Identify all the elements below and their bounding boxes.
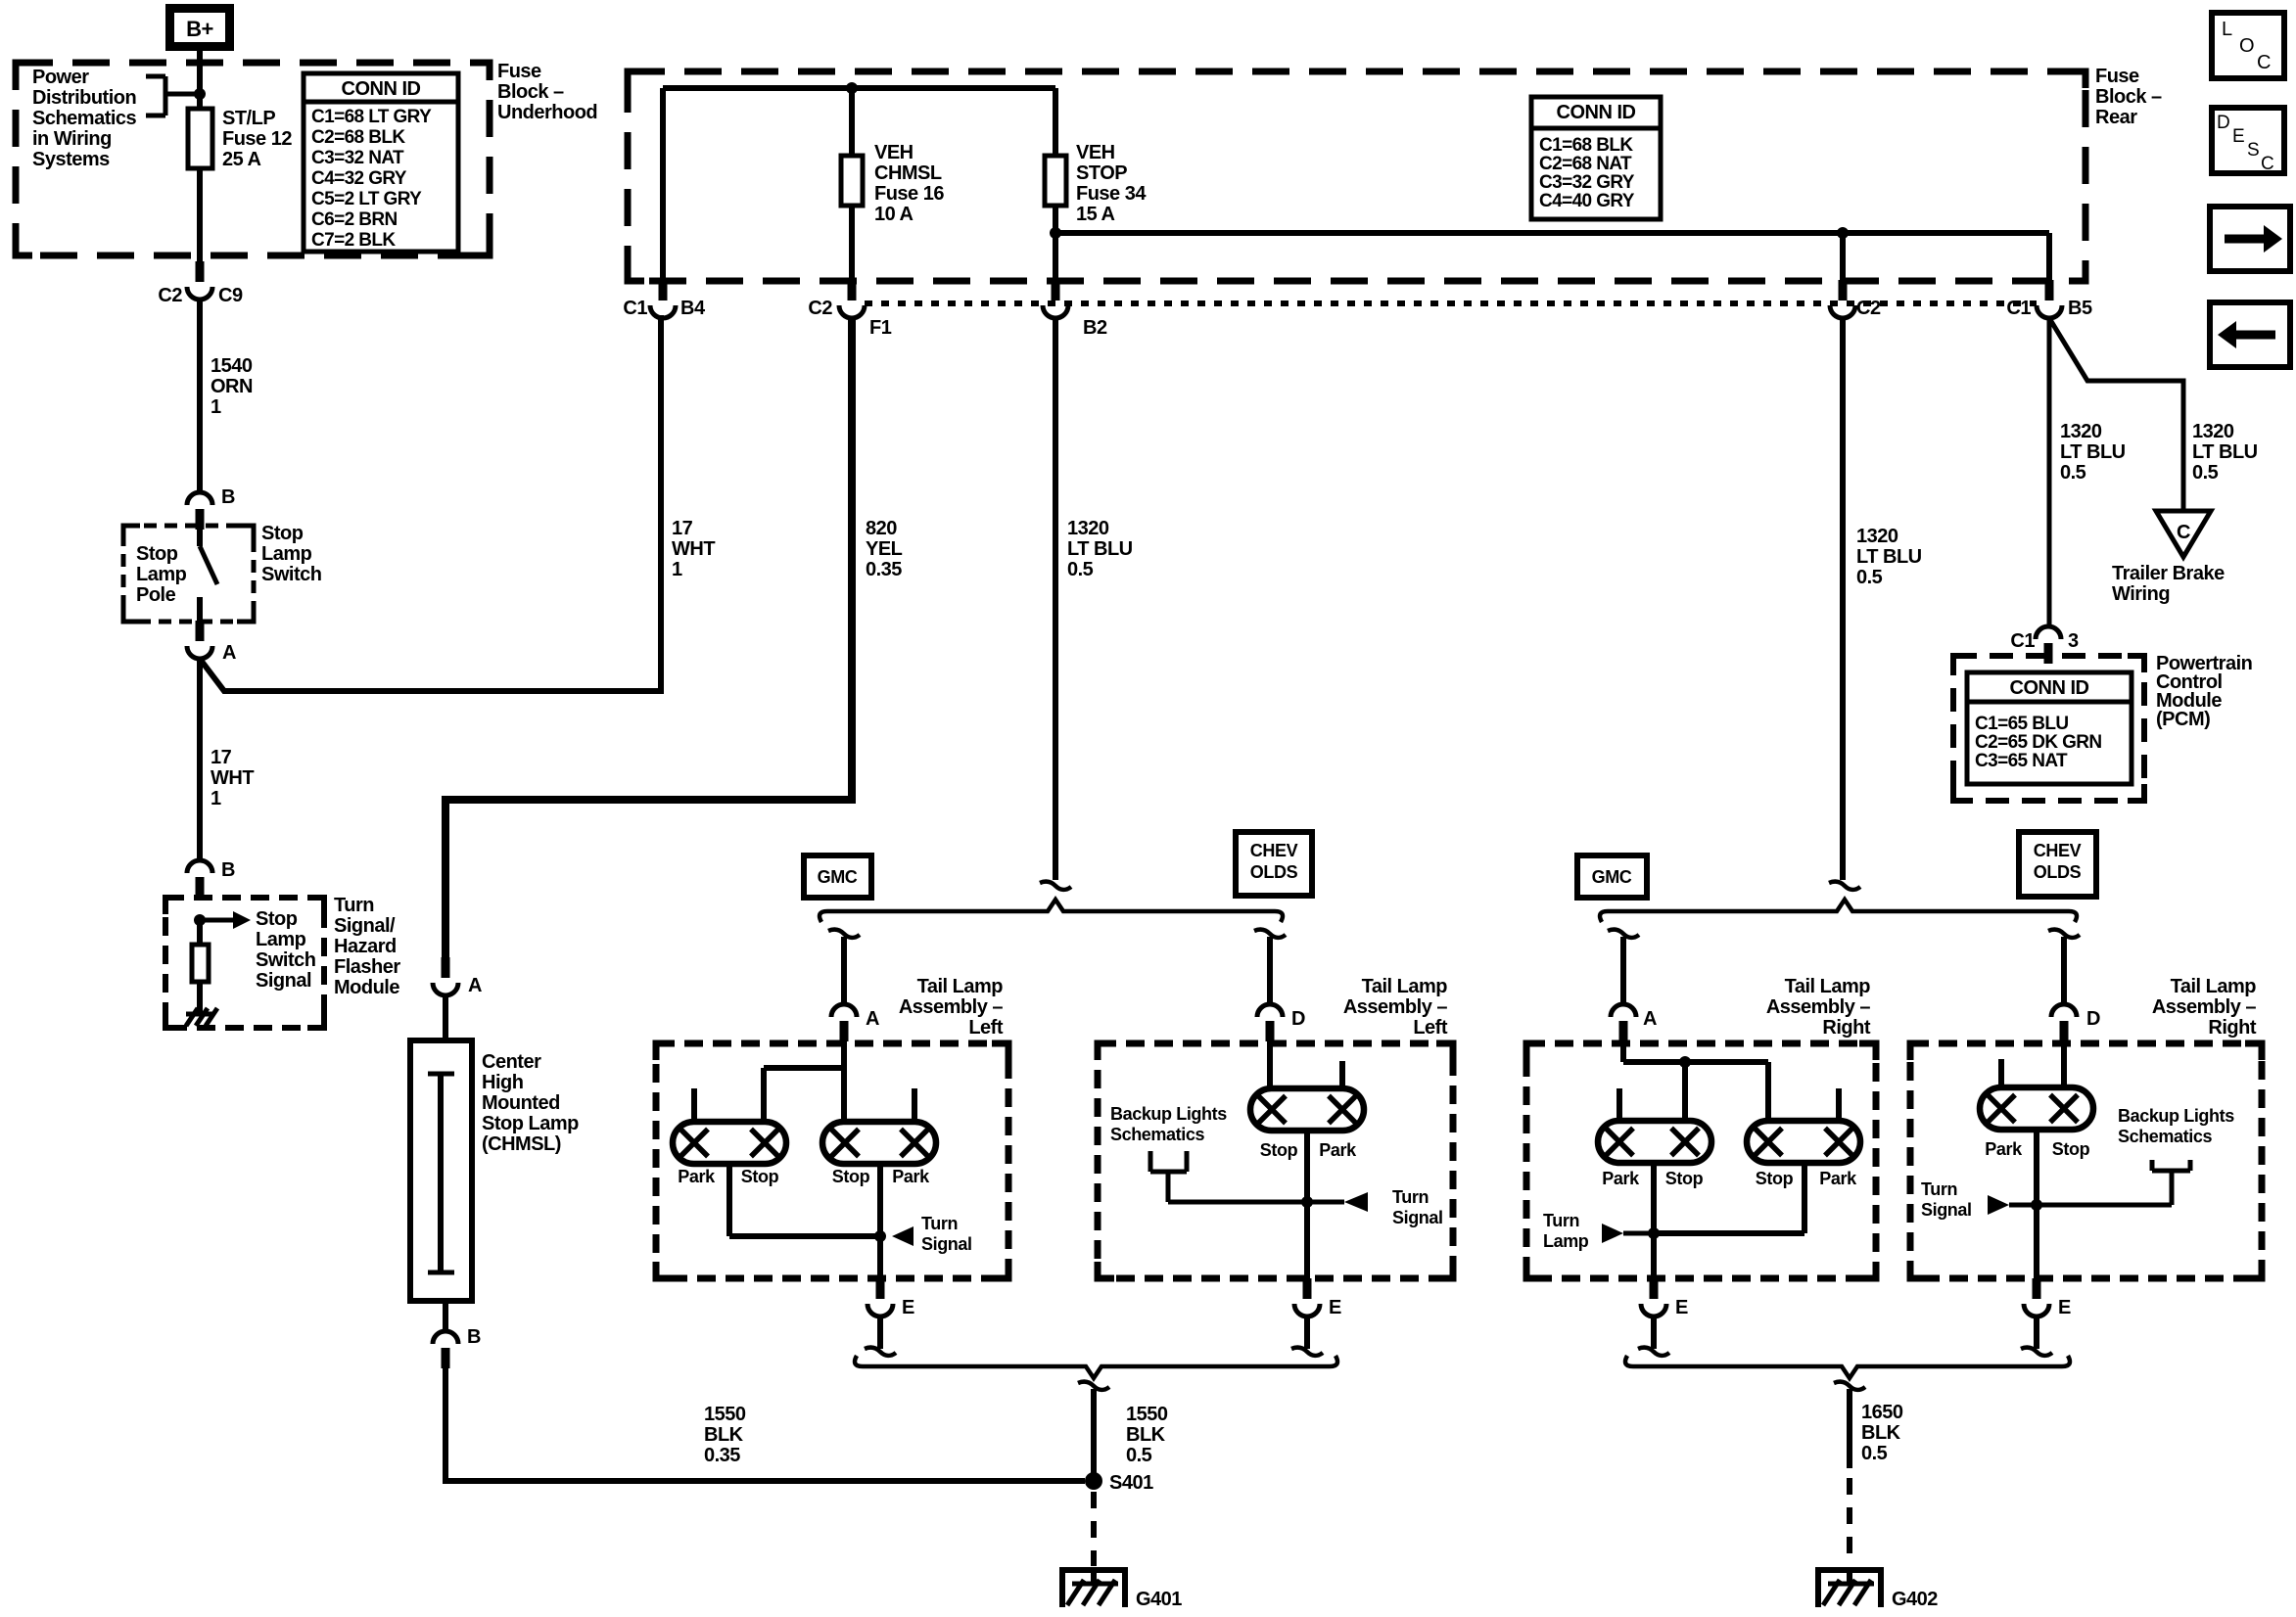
label 1320 LT BLU 0.5 rear C2 <box>1856 526 1922 588</box>
label Turn Signal Hazard Flasher Module <box>334 895 400 998</box>
svg-text:Lamp: Lamp <box>256 929 306 950</box>
label 1650 BLK 0.5 <box>1861 1402 1903 1464</box>
wire switch A to fuse B4 <box>200 315 661 691</box>
resistor flasher module <box>192 920 209 1013</box>
wire end curl E left CHEV <box>1291 1348 1323 1356</box>
bus wire fuse34 to B5 <box>1055 230 2049 236</box>
svg-text:1: 1 <box>672 559 682 580</box>
wire A into bulbs right GMC <box>1623 1039 1768 1121</box>
battery feed B+ box <box>170 9 230 47</box>
CHEV OLDS box left <box>1236 832 1312 896</box>
svg-text:Center: Center <box>482 1051 541 1073</box>
label Tail Lamp Assembly Left GMC <box>899 976 1004 1039</box>
park filament stub bulb2 left GMC <box>912 1088 917 1122</box>
svg-text:C: C <box>2177 522 2190 543</box>
dashed wire to G402 <box>1847 1478 1852 1564</box>
svg-text:Signal/: Signal/ <box>334 915 396 937</box>
svg-text:C5=2 LT GRY: C5=2 LT GRY <box>311 189 422 209</box>
svg-text:Fuse 12: Fuse 12 <box>222 128 292 150</box>
svg-text:E: E <box>1675 1297 1688 1318</box>
svg-text:C2=68 NAT: C2=68 NAT <box>1539 154 1632 174</box>
backup lights bracket left <box>1150 1151 1307 1202</box>
park filament stub bulb2 right GMC <box>1836 1088 1842 1121</box>
svg-text:Fuse 34: Fuse 34 <box>1076 183 1147 205</box>
wire B+ to ST/LP fuse <box>197 51 203 111</box>
svg-text:C3=32 NAT: C3=32 NAT <box>311 148 404 168</box>
ground G402 <box>1815 1570 1938 1610</box>
center high mounted stop lamp CHMSL body <box>410 1040 472 1301</box>
wire switch A to flasher module <box>197 659 203 860</box>
svg-text:WHT: WHT <box>672 538 715 560</box>
svg-text:F1: F1 <box>869 317 892 339</box>
label VEH CHMSL Fuse 16 10 A <box>874 142 944 225</box>
svg-text:1550: 1550 <box>704 1404 746 1425</box>
svg-text:OLDS: OLDS <box>1250 862 1298 882</box>
svg-text:Park: Park <box>892 1167 930 1186</box>
svg-text:Right: Right <box>1822 1017 1870 1039</box>
svg-text:0.5: 0.5 <box>2060 462 2086 484</box>
brace ground left pair <box>855 1356 1337 1378</box>
wire 1320 LT BLU from B2 <box>1053 318 1058 880</box>
junction dot turn signal left CHEV <box>1301 1196 1313 1208</box>
junction dot bus fuse16 <box>846 82 858 94</box>
arrow box left <box>2210 302 2290 367</box>
wire to tail lamp right GMC A <box>1620 937 1626 1004</box>
svg-text:Power: Power <box>32 67 89 88</box>
svg-text:1320: 1320 <box>1067 518 1109 539</box>
connector E left GMC <box>867 1278 914 1318</box>
label Turn Signal left GMC <box>921 1214 972 1254</box>
connector E left CHEV <box>1294 1278 1341 1318</box>
label Backup Lights Schematics left <box>1110 1104 1227 1144</box>
connector B2 <box>1043 280 1107 339</box>
label Stop Lamp Switch Signal <box>256 908 315 992</box>
label 1550 BLK 0.35 <box>704 1404 746 1466</box>
svg-text:Rear: Rear <box>2095 107 2137 128</box>
connector A tail lamp right GMC <box>1611 1004 1657 1041</box>
branch curl CHEV left <box>1254 930 1286 938</box>
label Tail Lamp Assembly Left CHEV <box>1343 976 1448 1039</box>
svg-text:Lamp: Lamp <box>136 564 187 585</box>
connector C1/B4 <box>623 280 706 319</box>
svg-text:Park: Park <box>1819 1169 1857 1188</box>
connector D tail lamp right CHEV <box>2051 1004 2100 1041</box>
svg-text:Left: Left <box>968 1017 1004 1039</box>
svg-text:LT BLU: LT BLU <box>2060 441 2126 463</box>
label 17 WHT 1 left <box>211 747 254 809</box>
svg-text:C1: C1 <box>2010 630 2035 652</box>
svg-text:C: C <box>2257 52 2271 73</box>
bulb stop/park 2 left GMC <box>822 1122 936 1164</box>
svg-text:1320: 1320 <box>1856 526 1898 547</box>
label Stop Lamp Pole <box>136 543 187 606</box>
wire A into bulbs left GMC <box>764 1039 844 1122</box>
wire end curl E right CHEV <box>2021 1348 2052 1356</box>
svg-text:A: A <box>866 1008 879 1030</box>
tail lamp assembly left GMC dashed box <box>653 1040 1012 1282</box>
connector E right CHEV <box>2024 1278 2071 1318</box>
svg-text:Turn: Turn <box>921 1214 958 1233</box>
wire bulbs to E right GMC <box>1654 1163 1804 1278</box>
connector E right GMC <box>1641 1278 1688 1318</box>
svg-text:D: D <box>2086 1008 2100 1030</box>
svg-text:Turn: Turn <box>1543 1211 1579 1230</box>
fuse block rear dashed box <box>625 69 2089 285</box>
label ST/LP Fuse 12 25 A <box>222 108 292 170</box>
svg-text:Schematics: Schematics <box>32 108 137 129</box>
svg-text:C2: C2 <box>158 285 182 306</box>
label Center High Mounted Stop Lamp CHMSL <box>482 1051 579 1155</box>
label 1540 ORN 1 <box>211 355 253 418</box>
wire to S401 <box>1091 1389 1097 1474</box>
bulb park/stop right CHEV <box>1980 1087 2093 1130</box>
svg-text:E: E <box>2232 126 2245 147</box>
svg-text:E: E <box>2058 1297 2071 1318</box>
bus wire inside rear fuse block <box>663 88 1055 281</box>
svg-text:Stop: Stop <box>136 543 178 565</box>
svg-text:0.5: 0.5 <box>1856 567 1883 588</box>
svg-text:B+: B+ <box>186 17 213 41</box>
brace splice left pair <box>820 900 1283 922</box>
wire B5 to trailer brake <box>2049 318 2183 511</box>
wire end curl E right GMC <box>1638 1348 1669 1356</box>
wire end curl above right brace <box>1829 882 1860 890</box>
svg-text:B5: B5 <box>2068 298 2092 319</box>
label Stop bulb2 left GMC <box>832 1167 870 1186</box>
svg-text:Lamp: Lamp <box>261 543 312 565</box>
turn signal arrow left CHEV <box>1307 1192 1368 1212</box>
svg-text:0.5: 0.5 <box>1067 559 1094 580</box>
tail lamp assembly right CHEV dashed box <box>1907 1040 2266 1282</box>
label Stop bulb1 right GMC <box>1665 1169 1704 1188</box>
connector A stop lamp switch <box>187 621 236 664</box>
svg-text:CONN ID: CONN ID <box>1557 102 1636 123</box>
svg-text:B2: B2 <box>1083 317 1107 339</box>
connector C2/F1 <box>808 280 891 339</box>
svg-text:Hazard: Hazard <box>334 936 397 957</box>
svg-text:Park: Park <box>1985 1139 2023 1159</box>
svg-text:CHEV: CHEV <box>1250 841 1298 860</box>
label Park bulb left CHEV <box>1319 1140 1357 1160</box>
label Turn Lamp right GMC <box>1543 1211 1589 1251</box>
branch curl GMC right <box>1608 930 1639 938</box>
svg-text:E: E <box>1329 1297 1341 1318</box>
svg-text:C2=68 BLK: C2=68 BLK <box>311 127 405 148</box>
wire bulbs to E left GMC <box>729 1164 880 1278</box>
svg-text:L: L <box>2222 19 2232 40</box>
svg-text:C4=40 GRY: C4=40 GRY <box>1539 191 1635 211</box>
junction dot fuse34 output <box>1050 227 1061 239</box>
wire to rear connector C2 <box>1840 233 1846 286</box>
svg-text:Stop: Stop <box>1260 1140 1298 1160</box>
svg-text:LT BLU: LT BLU <box>1856 546 1922 568</box>
label Power Distribution Schematics in Wiring Systems <box>32 67 137 170</box>
svg-text:O: O <box>2239 35 2255 57</box>
connector C2/C9 <box>158 261 243 306</box>
svg-text:C3=65 NAT: C3=65 NAT <box>1975 751 2068 771</box>
svg-text:Stop: Stop <box>2052 1139 2090 1159</box>
svg-text:0.5: 0.5 <box>1126 1445 1152 1466</box>
junction dot feed right GMC <box>1679 1056 1691 1068</box>
connector B flasher module <box>187 859 235 898</box>
CHEV OLDS box right <box>2019 832 2096 897</box>
tail lamp assembly left CHEV dashed box <box>1095 1040 1457 1282</box>
label Trailer Brake Wiring <box>2112 563 2225 605</box>
svg-text:(PCM): (PCM) <box>2156 709 2210 730</box>
label bracket Power Distribution <box>146 76 195 115</box>
svg-text:0.35: 0.35 <box>704 1445 740 1466</box>
CONN ID table rear <box>1531 97 1661 219</box>
junction dot rear C2 tap <box>1837 227 1849 239</box>
fuse block underhood dashed box <box>13 60 493 259</box>
label Backup Lights Schematics right <box>2118 1106 2234 1146</box>
wire E to ground brace right CHEV <box>2034 1317 2039 1349</box>
svg-text:C3=32 GRY: C3=32 GRY <box>1539 172 1635 193</box>
svg-text:CONN ID: CONN ID <box>2010 677 2089 699</box>
svg-text:WHT: WHT <box>211 767 254 789</box>
svg-text:BLK: BLK <box>1126 1424 1166 1446</box>
svg-text:C7=2 BLK: C7=2 BLK <box>311 230 396 251</box>
svg-text:C2=65 DK GRN: C2=65 DK GRN <box>1975 732 2102 753</box>
svg-text:Park: Park <box>678 1167 716 1186</box>
svg-text:Module: Module <box>334 977 399 998</box>
label Tail Lamp Assembly Right GMC <box>1766 976 1871 1039</box>
label 1550 BLK 0.5 <box>1126 1404 1168 1466</box>
turn signal arrow right CHEV <box>1988 1195 2037 1215</box>
svg-text:(CHMSL): (CHMSL) <box>482 1133 561 1155</box>
wire fuse to connector C2/C9 <box>197 168 203 262</box>
svg-text:1: 1 <box>211 396 221 418</box>
trailer brake wiring off-page triangle C <box>2156 511 2211 557</box>
stop lamp switch blade <box>200 528 217 623</box>
svg-text:15 A: 15 A <box>1076 204 1115 225</box>
turn signal hazard flasher module dashed box <box>163 895 327 1031</box>
svg-text:B: B <box>221 859 235 881</box>
wire to tail lamp left GMC A <box>841 937 847 1004</box>
label Turn Signal left CHEV <box>1392 1187 1443 1227</box>
svg-text:10 A: 10 A <box>874 204 914 225</box>
svg-text:Turn: Turn <box>1921 1179 1957 1199</box>
svg-text:S401: S401 <box>1109 1472 1153 1494</box>
svg-text:Park: Park <box>1602 1169 1640 1188</box>
svg-text:Systems: Systems <box>32 149 110 170</box>
wire to connector B5 <box>2046 233 2052 281</box>
svg-text:VEH: VEH <box>874 142 914 163</box>
svg-text:1320: 1320 <box>2192 421 2234 442</box>
label Tail Lamp Assembly Right CHEV <box>2152 976 2257 1039</box>
svg-text:C2: C2 <box>1856 298 1881 319</box>
svg-text:Turn: Turn <box>334 895 374 916</box>
fuse VEH STOP Fuse 34 15A <box>1045 156 1066 206</box>
svg-text:Signal: Signal <box>921 1234 972 1254</box>
svg-text:B: B <box>221 486 235 508</box>
GMC box right <box>1577 855 1647 898</box>
svg-text:OLDS: OLDS <box>2034 862 2082 882</box>
svg-text:Assembly –: Assembly – <box>899 996 1004 1018</box>
park filament stub bulb1 right GMC <box>1617 1088 1622 1121</box>
svg-text:1540: 1540 <box>211 355 253 377</box>
svg-text:Trailer Brake: Trailer Brake <box>2112 563 2225 584</box>
svg-text:1: 1 <box>211 788 221 809</box>
turn lamp arrow right GMC <box>1602 1224 1654 1243</box>
svg-text:Signal: Signal <box>1921 1200 1972 1220</box>
wire fuse34 vertical <box>1053 88 1058 281</box>
connector A CHMSL <box>433 957 482 996</box>
svg-text:820: 820 <box>866 518 897 539</box>
label 1320 LT BLU 0.5 trailer <box>2192 421 2258 484</box>
svg-text:A: A <box>1643 1008 1657 1030</box>
LOC reference box <box>2212 13 2284 78</box>
backup lights bracket right <box>2037 1160 2190 1205</box>
svg-text:D: D <box>2217 113 2230 133</box>
wire E to ground brace right GMC <box>1651 1317 1657 1349</box>
svg-text:1550: 1550 <box>1126 1404 1168 1425</box>
svg-text:Backup Lights: Backup Lights <box>1110 1104 1227 1124</box>
connector row dotted line fuse block rear <box>865 300 2037 306</box>
wire to G402 <box>1847 1389 1852 1468</box>
svg-text:Signal: Signal <box>1392 1208 1443 1227</box>
svg-text:Left: Left <box>1413 1017 1448 1039</box>
label Powertrain Control Module PCM <box>2156 653 2252 730</box>
turn signal arrow left GMC <box>892 1226 914 1246</box>
svg-text:S: S <box>2247 140 2260 161</box>
svg-text:Tail Lamp: Tail Lamp <box>917 976 1004 997</box>
svg-text:Pole: Pole <box>136 584 176 606</box>
svg-text:Schematics: Schematics <box>2118 1127 2212 1146</box>
brace splice right pair <box>1600 900 2077 922</box>
wire D into bulb left CHEV <box>1267 1039 1273 1088</box>
fuse ST/LP Fuse 12 25A <box>188 109 212 168</box>
connector C1/3 PCM <box>2010 626 2079 664</box>
label Fuse Block - Rear <box>2095 66 2162 128</box>
splice S401 <box>1085 1472 1153 1494</box>
connector D tail lamp left CHEV <box>1257 1004 1305 1041</box>
wire 1540 ORN to stop lamp switch <box>197 300 203 492</box>
powertrain control module dashed box <box>1950 653 2147 804</box>
svg-text:C6=2 BRN: C6=2 BRN <box>311 209 398 230</box>
svg-text:C4=32 GRY: C4=32 GRY <box>311 168 407 189</box>
svg-text:C1=68 BLK: C1=68 BLK <box>1539 135 1633 156</box>
wire to tail lamp right CHEV D <box>2061 937 2067 1004</box>
svg-text:G401: G401 <box>1136 1589 1182 1610</box>
svg-text:BLK: BLK <box>1861 1422 1901 1444</box>
wire E to ground brace left GMC <box>877 1317 883 1349</box>
svg-text:A: A <box>222 642 236 664</box>
svg-text:VEH: VEH <box>1076 142 1115 163</box>
svg-text:Tail Lamp: Tail Lamp <box>1362 976 1448 997</box>
branch curl CHEV right <box>2048 930 2080 938</box>
svg-text:LT BLU: LT BLU <box>2192 441 2258 463</box>
svg-text:Stop: Stop <box>261 523 304 544</box>
svg-text:Backup Lights: Backup Lights <box>2118 1106 2234 1126</box>
label 17 WHT 1 middle <box>672 518 715 580</box>
svg-text:Park: Park <box>1319 1140 1357 1160</box>
label Fuse Block - Underhood <box>497 61 597 123</box>
stop lamp switch dashed box <box>121 524 257 624</box>
svg-text:C1: C1 <box>623 298 647 319</box>
svg-text:YEL: YEL <box>866 538 903 560</box>
park filament stub bulb1 left GMC <box>691 1088 697 1122</box>
arrow box right <box>2210 207 2290 271</box>
svg-text:LT BLU: LT BLU <box>1067 538 1133 560</box>
svg-text:C1: C1 <box>2006 298 2031 319</box>
label 820 YEL 0.35 <box>866 518 903 580</box>
arrow stop lamp switch signal <box>200 911 251 929</box>
svg-text:1320: 1320 <box>2060 421 2102 442</box>
tail lamp assembly right GMC dashed box <box>1523 1040 1880 1282</box>
junction dot turn lamp right GMC <box>1648 1227 1660 1239</box>
svg-text:Schematics: Schematics <box>1110 1125 1204 1144</box>
park filament stub bulb right CHEV <box>1998 1059 2004 1087</box>
svg-text:Assembly –: Assembly – <box>1343 996 1448 1018</box>
CONN ID table underhood <box>304 73 458 252</box>
svg-text:STOP: STOP <box>1076 162 1127 184</box>
connector B CHMSL <box>433 1301 481 1368</box>
svg-text:C1=65 BLU: C1=65 BLU <box>1975 714 2068 734</box>
svg-text:CONN ID: CONN ID <box>342 78 421 100</box>
svg-text:Fuse 16: Fuse 16 <box>874 183 944 205</box>
label Stop bulb left CHEV <box>1260 1140 1298 1160</box>
svg-text:in Wiring: in Wiring <box>32 128 112 150</box>
wire 820 YEL from F1 to CHMSL <box>445 318 852 958</box>
branch curl GMC left <box>828 930 860 938</box>
svg-text:Distribution: Distribution <box>32 87 136 109</box>
svg-text:Mounted: Mounted <box>482 1092 560 1114</box>
svg-text:Turn: Turn <box>1392 1187 1429 1207</box>
svg-text:BLK: BLK <box>704 1424 744 1446</box>
bulb park/stop 1 left GMC <box>673 1122 786 1164</box>
svg-text:Switch: Switch <box>261 564 321 585</box>
svg-text:3: 3 <box>2068 630 2079 652</box>
svg-text:Signal: Signal <box>256 970 311 992</box>
bulb stop/park 2 right GMC <box>1747 1121 1860 1163</box>
park filament stub bulb left CHEV <box>1339 1061 1345 1088</box>
branch curl S401 wire <box>1078 1382 1109 1390</box>
svg-text:Wiring: Wiring <box>2112 583 2170 605</box>
svg-text:17: 17 <box>672 518 693 539</box>
wire 17 WHT from B4 <box>658 318 664 691</box>
wire end curl E left GMC <box>865 1348 896 1356</box>
label Turn Signal right CHEV <box>1921 1179 1972 1220</box>
DESC reference box <box>2212 108 2284 174</box>
svg-text:C: C <box>2261 154 2274 174</box>
svg-text:Stop: Stop <box>832 1167 870 1186</box>
connector C1/B5 <box>2006 280 2092 319</box>
label Park bulb2 left GMC <box>892 1167 930 1186</box>
connector C2 rear right <box>1830 280 1881 319</box>
svg-text:Block –: Block – <box>2095 86 2162 108</box>
label 1320 LT BLU 0.5 left <box>1067 518 1133 580</box>
svg-text:Fuse: Fuse <box>497 61 541 82</box>
connector A tail lamp left GMC <box>831 1004 879 1041</box>
connector B stop lamp switch <box>187 486 235 530</box>
svg-text:Stop Lamp: Stop Lamp <box>482 1113 579 1134</box>
svg-text:Stop: Stop <box>1756 1169 1794 1188</box>
label Park bulb1 right GMC <box>1602 1169 1640 1188</box>
svg-text:Tail Lamp: Tail Lamp <box>1785 976 1871 997</box>
label Park bulb1 left GMC <box>678 1167 716 1186</box>
wire 1320 LT BLU from rear C2 <box>1840 318 1846 880</box>
junction dot stop lamp switch signal <box>194 914 206 926</box>
GMC box left <box>804 855 871 898</box>
wire to tail lamp left CHEV D <box>1267 937 1273 1004</box>
label 1320 LT BLU 0.5 PCM <box>2060 421 2126 484</box>
svg-text:Switch: Switch <box>256 949 315 971</box>
svg-text:Lamp: Lamp <box>1543 1231 1589 1251</box>
svg-text:Tail Lamp: Tail Lamp <box>2171 976 2257 997</box>
svg-text:B4: B4 <box>680 298 706 319</box>
svg-text:Assembly –: Assembly – <box>2152 996 2257 1018</box>
